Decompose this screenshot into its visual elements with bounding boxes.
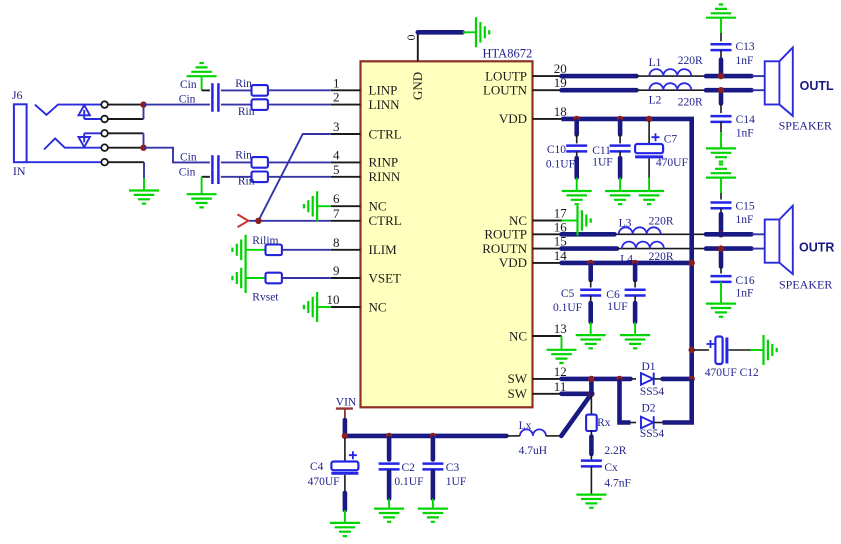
wire C15 to ROUTP xyxy=(720,208,722,214)
resistor Rin (4) xyxy=(252,172,268,183)
wire C4 lower lead to ground xyxy=(344,475,346,493)
wire LOUTP to speaker xyxy=(752,75,765,77)
resistor Rvset xyxy=(266,273,282,284)
node ring junction xyxy=(140,145,146,151)
wire circle3 down to ring node xyxy=(143,133,145,147)
node D2 branch xyxy=(616,376,622,382)
diode D1 xyxy=(641,373,654,386)
wire ground to C15 xyxy=(720,178,722,193)
wire C16 to ground xyxy=(720,282,722,304)
node rail C2 xyxy=(386,433,392,439)
svg-text:Cin: Cin xyxy=(179,94,196,106)
VIN power bar xyxy=(336,407,353,409)
wire Cin3 to Rin3 xyxy=(221,161,252,163)
pin names right xyxy=(482,68,528,401)
inductor L1 xyxy=(649,69,691,76)
svg-text:C11: C11 xyxy=(592,145,611,157)
node C14/LOUTN xyxy=(718,87,724,93)
jack sleeve wire xyxy=(27,161,102,163)
node rail C3 xyxy=(430,433,436,439)
svg-text:L3: L3 xyxy=(619,218,632,230)
ground above Cin1 xyxy=(187,63,217,76)
wire C7 upper lead xyxy=(648,121,650,144)
svg-text:220R: 220R xyxy=(678,97,703,109)
resistor Rx xyxy=(586,415,597,431)
wire C12 to ground xyxy=(729,349,751,351)
capacitor C7 polarized xyxy=(635,133,663,157)
ground C12 (sideways right) xyxy=(764,335,777,365)
svg-text:ROUTP: ROUTP xyxy=(484,227,527,242)
svg-text:C6: C6 xyxy=(606,289,620,301)
wire CTRL pin7 xyxy=(248,220,330,222)
wire SW pin11 thick xyxy=(562,391,592,396)
wire ROUTN to speaker xyxy=(752,248,765,250)
svg-text:C16: C16 xyxy=(736,275,755,287)
svg-text:Rin: Rin xyxy=(238,106,255,118)
svg-text:SS54: SS54 xyxy=(640,428,665,440)
svg-text:RINN: RINN xyxy=(369,169,401,184)
wire ring node to Cin3 xyxy=(144,148,210,163)
node VDD bus pin14 xyxy=(689,260,695,266)
wire C4 upper lead xyxy=(344,438,346,461)
wire LOUTP thick xyxy=(562,74,637,79)
svg-text:LINP: LINP xyxy=(369,83,398,98)
pin 0 GND stub wire xyxy=(417,32,419,61)
jack switch arrow up xyxy=(79,105,102,119)
wire CTRL diagonal pin3 xyxy=(258,134,330,221)
node C10 xyxy=(574,116,580,122)
svg-text:8: 8 xyxy=(333,235,340,250)
wire ROUTN thick right xyxy=(706,246,752,251)
svg-text:OUTL: OUTL xyxy=(800,79,834,93)
wire LOUTP thin through L1 xyxy=(637,75,707,77)
svg-text:Rx: Rx xyxy=(597,417,611,429)
wire ground to Rvset xyxy=(246,277,266,279)
svg-text:4: 4 xyxy=(333,147,340,162)
ground Rilim (sideways) xyxy=(232,235,245,265)
wire Rin4 to pin5 xyxy=(268,176,331,178)
svg-text:D2: D2 xyxy=(642,402,656,414)
wire C10 lower stub to ground xyxy=(576,151,578,158)
svg-text:LOUTP: LOUTP xyxy=(485,68,527,83)
svg-text:CTRL: CTRL xyxy=(369,213,402,228)
pin numbers right xyxy=(554,61,568,394)
node rail VIN xyxy=(342,433,348,439)
wire Rx to Cx xyxy=(590,430,592,437)
node C15/ROUTP xyxy=(718,231,724,237)
wire D2 cathode up to bus xyxy=(654,422,663,424)
node C16/ROUTN xyxy=(718,245,724,251)
svg-text:SW: SW xyxy=(508,371,528,386)
svg-text:2: 2 xyxy=(333,90,340,105)
svg-text:Lx: Lx xyxy=(519,420,532,432)
wire rail to Lx xyxy=(506,435,520,437)
wire C2 upper stub xyxy=(387,438,392,460)
wire C13 to LOUTP xyxy=(720,50,722,59)
capacitor Cin (4) xyxy=(212,170,218,184)
svg-text:ILIM: ILIM xyxy=(369,242,398,257)
capacitor C5 xyxy=(580,290,601,296)
wire C3 lower stub to ground xyxy=(431,472,436,499)
svg-text:1UF: 1UF xyxy=(607,301,627,313)
speaker OUTR xyxy=(765,206,793,274)
connector J6 jack body xyxy=(14,104,27,162)
svg-text:1nF: 1nF xyxy=(736,288,754,300)
svg-text:Rvset: Rvset xyxy=(252,291,279,303)
wire LOUTN thin through L2 xyxy=(637,89,707,91)
ground pin13 xyxy=(547,350,577,363)
capacitor C4 polarized xyxy=(331,451,358,473)
inductor Lx xyxy=(520,429,546,436)
jack ring contact wire xyxy=(44,138,101,149)
svg-text:0.1UF: 0.1UF xyxy=(546,159,575,171)
diode D2 xyxy=(641,416,654,429)
wire SW diagonal thick xyxy=(561,394,591,436)
svg-text:LOUTN: LOUTN xyxy=(483,83,528,98)
svg-text:C4: C4 xyxy=(310,461,324,473)
wire ROUTP thick right xyxy=(706,232,752,237)
ground middle upper xyxy=(706,148,736,161)
svg-text:L2: L2 xyxy=(649,94,662,106)
wire Rin1 to pin1 xyxy=(268,89,331,91)
svg-text:10: 10 xyxy=(327,292,340,307)
svg-text:4.7uH: 4.7uH xyxy=(519,445,547,457)
svg-text:OUTR: OUTR xyxy=(799,241,834,255)
wire Rin3 to pin4 xyxy=(268,161,331,163)
wire LOUTP thick right xyxy=(706,74,752,79)
wire Cin1 to Rin1 xyxy=(221,89,252,91)
capacitor C2 xyxy=(379,464,400,470)
node CTRL junction xyxy=(255,218,261,224)
svg-text:470UF: 470UF xyxy=(656,157,688,169)
op-amp/IC U1 HTA8672 body xyxy=(361,61,533,407)
ground C16 xyxy=(706,304,736,317)
inductor L3 xyxy=(619,227,661,234)
inductor L4 xyxy=(622,242,664,249)
node C6 xyxy=(632,260,638,266)
svg-text:1UF: 1UF xyxy=(446,476,466,488)
svg-text:220R: 220R xyxy=(649,216,674,228)
capacitor C13 xyxy=(711,44,732,50)
svg-text:220R: 220R xyxy=(678,55,703,67)
wire sleeve to ground xyxy=(143,162,145,178)
wire C3 upper stub xyxy=(431,438,436,460)
svg-text:VDD: VDD xyxy=(499,255,527,270)
resistor Rilim xyxy=(266,245,282,256)
wire VDD pin14 thick xyxy=(562,261,692,266)
wire VIN to rail thick xyxy=(343,420,348,436)
svg-text:17: 17 xyxy=(554,206,568,221)
capacitor Cin (1) xyxy=(212,83,218,97)
svg-text:NC: NC xyxy=(369,199,387,214)
svg-text:C10: C10 xyxy=(547,144,566,156)
wire stub circle5 xyxy=(108,161,144,163)
svg-text:9: 9 xyxy=(333,263,340,278)
svg-text:470UF C12: 470UF C12 xyxy=(705,367,759,379)
wire C10 upper stub xyxy=(574,121,579,135)
wire ROUTP thick xyxy=(562,232,615,237)
wire ROUTN to C16 xyxy=(719,249,724,267)
svg-text:VIN: VIN xyxy=(336,397,357,409)
node C11 xyxy=(617,116,623,122)
wire LOUTN thick xyxy=(562,88,637,93)
ground Rvset (sideways) xyxy=(232,263,245,293)
node SW12 xyxy=(588,376,594,382)
pin stub wires left (black) xyxy=(331,90,361,307)
wire D1 cathode to bus xyxy=(654,378,663,380)
wire pin17 to ground xyxy=(562,220,578,222)
svg-text:C3: C3 xyxy=(446,462,460,474)
wire stub circle3 xyxy=(108,132,144,134)
svg-text:Rin: Rin xyxy=(235,78,252,90)
svg-text:GND: GND xyxy=(410,72,425,100)
svg-text:Rin: Rin xyxy=(238,175,255,187)
wire C11 upper stub xyxy=(618,121,623,135)
svg-text:CTRL: CTRL xyxy=(369,126,402,141)
wire C5 upper stub xyxy=(588,265,593,280)
svg-text:3: 3 xyxy=(333,119,340,134)
resistor Rin (2) xyxy=(252,99,268,110)
node C13/LOUTP xyxy=(718,73,724,79)
resistor Rin (1) xyxy=(252,85,268,96)
wire Rin2 to pin2 xyxy=(268,104,331,106)
wire Lx to diagonal xyxy=(546,435,561,437)
ground pin6 (sideways) xyxy=(304,191,317,221)
jack tip contact wire xyxy=(35,105,101,115)
svg-text:C14: C14 xyxy=(736,114,755,126)
jack contact circle 5 xyxy=(101,159,108,166)
wire ROUTN thick xyxy=(562,246,618,251)
svg-text:D1: D1 xyxy=(642,361,656,373)
svg-text:NC: NC xyxy=(369,299,387,314)
wire C5 lower stub to ground xyxy=(590,296,592,304)
svg-text:0: 0 xyxy=(404,35,418,41)
wire stub circle4 xyxy=(108,147,144,149)
wire ground to Cin1 xyxy=(201,76,203,90)
svg-text:C15: C15 xyxy=(736,201,755,213)
ground C10 xyxy=(562,191,592,204)
jack contact circle 3 xyxy=(101,130,108,137)
ground above C13 xyxy=(706,5,736,18)
wire to D1 anode xyxy=(631,378,637,380)
ground C5 xyxy=(576,335,606,348)
svg-text:0.1UF: 0.1UF xyxy=(394,476,423,488)
wire LOUTN to C14 xyxy=(719,90,724,103)
wire pin11 dot to Rx xyxy=(590,396,592,416)
wire pin13 to ground xyxy=(561,336,563,350)
wire pin6 to ground xyxy=(317,205,331,207)
ground C11 xyxy=(605,191,635,204)
wire stub circle1 xyxy=(108,104,144,106)
wire ROUTP to speaker xyxy=(752,233,765,235)
jack contact circle 4 xyxy=(101,144,108,151)
wire ROUTP thin through L3 xyxy=(615,233,707,235)
wire Cin4 to Rin4 xyxy=(221,176,252,178)
wire tip node to Cin2 xyxy=(144,104,210,106)
jack switch arrow down xyxy=(79,133,102,147)
pin numbers left xyxy=(327,75,341,307)
wire LOUTN thick right xyxy=(706,88,752,93)
svg-text:0.1UF: 0.1UF xyxy=(553,302,582,314)
wire stub circle2 xyxy=(108,118,144,120)
wire VDD pin18 bus xyxy=(562,119,692,379)
wire D2 branch down xyxy=(620,379,631,423)
svg-text:J6: J6 xyxy=(12,88,23,102)
jack contact circle 1 xyxy=(101,101,108,108)
speaker OUTL xyxy=(765,48,793,116)
svg-text:Cin: Cin xyxy=(180,152,197,164)
svg-text:5: 5 xyxy=(333,162,340,177)
svg-text:1UF: 1UF xyxy=(592,157,612,169)
ground sleeve xyxy=(129,191,159,204)
svg-text:SW: SW xyxy=(508,386,528,401)
svg-text:1nF: 1nF xyxy=(736,127,754,139)
capacitor Cin (3) xyxy=(212,155,218,169)
node tip junction xyxy=(140,101,146,107)
wire C14 to ground xyxy=(720,122,722,132)
svg-text:13: 13 xyxy=(554,321,567,336)
node C12 bus xyxy=(689,347,695,353)
svg-text:Cin: Cin xyxy=(180,79,197,91)
node C7 xyxy=(646,116,652,122)
jack contact circle 2 xyxy=(101,116,108,123)
capacitor Cin (2) xyxy=(212,97,218,111)
wire Rvset to pin9 xyxy=(282,277,331,279)
inductor L2 xyxy=(649,83,691,90)
svg-text:4.7nF: 4.7nF xyxy=(604,477,631,489)
svg-text:7: 7 xyxy=(333,206,340,221)
pin names left xyxy=(369,83,402,315)
svg-text:C5: C5 xyxy=(561,288,575,300)
wire ground to Rilim xyxy=(246,249,266,251)
svg-text:NC: NC xyxy=(509,328,527,343)
wire C11 lower stub to ground xyxy=(619,151,621,158)
capacitor C10 xyxy=(566,146,587,152)
svg-text:HTA8672: HTA8672 xyxy=(483,46,533,60)
wire SW pin12 thick xyxy=(562,377,631,382)
svg-text:SS54: SS54 xyxy=(640,386,665,398)
wire ground below Cin4 xyxy=(202,176,210,178)
svg-text:IN: IN xyxy=(13,164,26,178)
svg-text:SPEAKER: SPEAKER xyxy=(779,277,832,291)
wire VIN red lead xyxy=(344,409,346,422)
ground C7 xyxy=(634,191,664,204)
ground C2 xyxy=(374,509,404,522)
svg-text:LINN: LINN xyxy=(369,97,401,112)
capacitor Cx xyxy=(581,461,602,467)
svg-text:Rin: Rin xyxy=(235,150,252,162)
svg-text:6: 6 xyxy=(333,191,340,206)
wire green to ground xyxy=(463,31,476,33)
svg-text:470UF: 470UF xyxy=(308,476,340,488)
svg-text:Rilim: Rilim xyxy=(252,235,278,247)
svg-text:RINP: RINP xyxy=(369,155,399,170)
svg-text:2.2R: 2.2R xyxy=(604,445,626,457)
svg-text:C7: C7 xyxy=(664,133,678,145)
svg-text:C13: C13 xyxy=(736,41,755,53)
ground C4 xyxy=(330,523,360,536)
wire ground to C13 xyxy=(720,18,722,33)
svg-text:C2: C2 xyxy=(402,462,416,474)
wire GND net thick xyxy=(418,30,463,35)
wire Cx to ground xyxy=(590,466,592,494)
wire Rilim to pin8 xyxy=(282,249,331,251)
capacitor C12 polarized xyxy=(707,337,727,365)
wire Cin2 to Rin2 xyxy=(221,104,252,106)
svg-text:Cx: Cx xyxy=(604,462,618,474)
ground C3 xyxy=(418,509,448,522)
ground pin17 (sideways right) xyxy=(578,206,591,236)
wire bus to C12 xyxy=(694,349,709,351)
wire C7 lower lead to ground xyxy=(648,158,650,177)
wire ROUTN thin through L4 xyxy=(617,248,706,250)
svg-text:VSET: VSET xyxy=(369,270,402,285)
wire C6 lower stub to ground xyxy=(634,296,636,304)
ground below Cin4 xyxy=(187,194,217,207)
capacitor C11 xyxy=(610,146,631,152)
ground C6 xyxy=(620,335,650,348)
ground middle lower (inverted) xyxy=(706,164,736,177)
resistor Rin (3) xyxy=(252,157,268,168)
ground pin10 (sideways) xyxy=(304,292,317,322)
svg-text:1: 1 xyxy=(333,75,340,90)
svg-text:1nF: 1nF xyxy=(736,214,754,226)
wire to D2 anode xyxy=(631,422,637,424)
svg-text:1nF: 1nF xyxy=(736,55,754,67)
wire SW link vertical xyxy=(589,379,594,394)
ground (top, sideways right) xyxy=(476,17,489,47)
ground Cx xyxy=(576,495,606,508)
svg-text:NC: NC xyxy=(509,213,527,228)
wire circle2 up to tip node xyxy=(143,105,145,119)
capacitor C14 xyxy=(711,116,732,122)
svg-text:VDD: VDD xyxy=(499,111,527,126)
CTRL input red arrow xyxy=(238,214,249,227)
wire C6 upper stub xyxy=(633,265,638,280)
capacitor C3 xyxy=(422,464,443,470)
pin stub wires right (black) xyxy=(533,76,562,394)
wire power rail thick xyxy=(345,434,507,439)
svg-text:SPEAKER: SPEAKER xyxy=(779,119,832,133)
wire C2 lower stub to ground xyxy=(387,472,392,499)
svg-text:Cin: Cin xyxy=(179,166,196,178)
node C5 xyxy=(588,260,594,266)
wire LOUTN to speaker xyxy=(752,89,765,91)
svg-text:L1: L1 xyxy=(649,57,662,69)
node D1 bus junction xyxy=(689,376,695,382)
node SW11 xyxy=(588,391,594,397)
wire pin10 to ground xyxy=(317,306,331,308)
capacitor C6 xyxy=(625,290,646,296)
svg-text:ROUTN: ROUTN xyxy=(482,241,527,256)
capacitor C15 xyxy=(711,203,732,209)
capacitor C16 xyxy=(711,276,732,282)
